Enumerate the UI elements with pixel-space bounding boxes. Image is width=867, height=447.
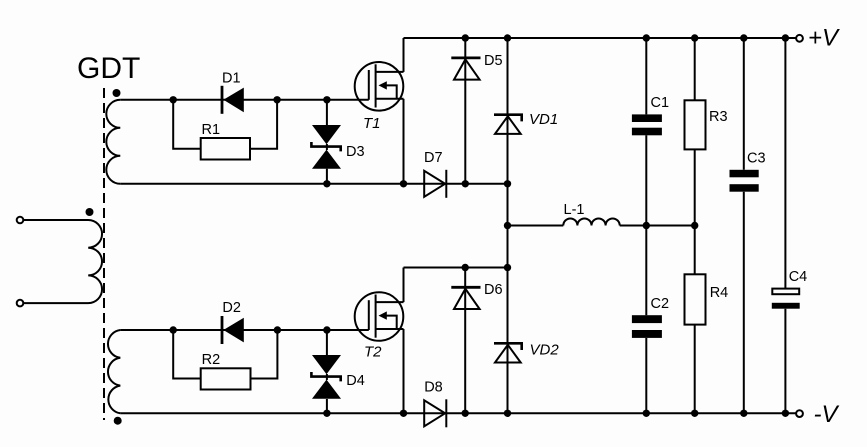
node bottom rail D6 — [462, 410, 469, 417]
node bottom rail R4 — [691, 410, 698, 417]
resistor R1 — [173, 100, 277, 160]
svg-text:D6: D6 — [484, 282, 503, 298]
node T1 source — [400, 180, 407, 187]
capacitor C4 polarized — [772, 38, 800, 413]
node R2-D2 right — [274, 326, 281, 333]
node top rail C1 — [643, 34, 650, 41]
node top rail C3 — [740, 34, 747, 41]
node mid rail R3R4 — [691, 222, 698, 229]
primary terminal bottom — [17, 300, 24, 307]
svg-text:R4: R4 — [710, 285, 729, 301]
diode D6 — [451, 268, 480, 414]
svg-text:GDT: GDT — [77, 52, 140, 85]
node D3 bottom — [323, 180, 330, 187]
wire: lower top rail — [404, 267, 508, 269]
node R2-D2 left — [170, 326, 177, 333]
zener VD1 — [494, 115, 522, 134]
MOSFET T1 — [355, 62, 404, 111]
wire: lower secondary to T2 gate — [120, 329, 368, 331]
node mid rail left — [504, 222, 511, 229]
diode D8 — [424, 399, 446, 427]
wire: inductor to R column — [620, 225, 695, 227]
node D7-D5 junction — [462, 180, 469, 187]
svg-text:VD1: VD1 — [529, 111, 558, 128]
svg-text:T1: T1 — [363, 115, 381, 132]
wire: mid rail to inductor — [508, 225, 564, 227]
capacitor C3 — [730, 38, 759, 413]
transformer core (dashed line) — [103, 88, 105, 420]
node R1-D1 left — [170, 96, 177, 103]
wire: bottom rail — [120, 412, 795, 414]
diode D5 — [451, 38, 480, 184]
node bottom rail C4 — [782, 410, 789, 417]
wire: VD column — [507, 38, 509, 413]
wire: +V top rail — [404, 37, 796, 39]
lower secondary winding — [108, 330, 120, 413]
node D7-VD1 junction — [504, 180, 511, 187]
capacitor C1 — [632, 38, 662, 226]
diode D7 — [424, 170, 446, 198]
lower secondary phase dot — [114, 417, 122, 425]
svg-text:VD2: VD2 — [530, 342, 560, 359]
diode D1 — [222, 86, 244, 114]
resistor R4 — [685, 226, 706, 414]
diode D2 — [222, 316, 244, 344]
inductor L-1 — [563, 218, 619, 225]
svg-text:+V: +V — [808, 25, 840, 52]
node T2 source bottom — [400, 410, 407, 417]
svg-text:D5: D5 — [484, 53, 503, 69]
terminal -V — [796, 410, 803, 417]
svg-text:-V: -V — [814, 401, 840, 428]
svg-text:L-1: L-1 — [564, 202, 585, 218]
node top rail C4 — [782, 34, 789, 41]
svg-text:R3: R3 — [709, 109, 728, 125]
wire: top section bottom — [120, 183, 403, 185]
svg-text:C3: C3 — [747, 151, 766, 167]
svg-text:R2: R2 — [202, 352, 221, 368]
node bottom rail D4 — [323, 410, 330, 417]
resistor R2 — [173, 330, 277, 390]
wire: T2 source down — [403, 329, 405, 413]
primary winding — [24, 220, 103, 303]
MOSFET T2 — [355, 292, 404, 341]
node R1-D1 right — [273, 96, 280, 103]
node top rail VD1 — [504, 34, 511, 41]
wire: T1 source down — [403, 99, 405, 184]
top secondary winding — [106, 100, 120, 184]
node D3 top — [323, 96, 330, 103]
svg-text:C2: C2 — [651, 296, 670, 312]
svg-text:T2: T2 — [364, 344, 382, 361]
capacitor C2 — [632, 226, 662, 414]
node top rail R3 — [691, 34, 698, 41]
svg-text:D2: D2 — [222, 300, 241, 316]
terminal +V — [796, 35, 803, 42]
svg-text:R1: R1 — [202, 122, 221, 138]
node lower rail VD2 — [504, 264, 511, 271]
wire: T1 drain to top rail — [403, 38, 405, 72]
zener VD2 — [494, 343, 522, 362]
node mid rail C1C2 — [643, 222, 650, 229]
svg-text:C4: C4 — [789, 269, 808, 285]
primary terminal top — [17, 217, 24, 224]
svg-text:D4: D4 — [346, 373, 365, 389]
resistor R3 — [685, 38, 706, 226]
svg-text:D3: D3 — [346, 144, 365, 160]
wire: top secondary to T1 gate — [120, 99, 368, 101]
node lower rail D6 — [462, 264, 469, 271]
node D4 top — [323, 326, 330, 333]
svg-text:C1: C1 — [651, 95, 670, 111]
top secondary phase dot — [113, 89, 121, 97]
node bottom rail C2 — [643, 410, 650, 417]
svg-text:D1: D1 — [222, 71, 241, 87]
TVS suppressor D3 — [311, 100, 341, 184]
node bottom rail C3 — [740, 410, 747, 417]
TVS suppressor D4 — [311, 330, 341, 413]
wire: T2 drain up — [403, 268, 405, 303]
wire: D7 row — [404, 183, 508, 185]
svg-text:D7: D7 — [424, 150, 443, 166]
node bottom rail VD2 — [504, 410, 511, 417]
svg-text:D8: D8 — [424, 380, 443, 396]
node top rail D5 — [462, 34, 469, 41]
primary phase dot — [86, 208, 94, 216]
